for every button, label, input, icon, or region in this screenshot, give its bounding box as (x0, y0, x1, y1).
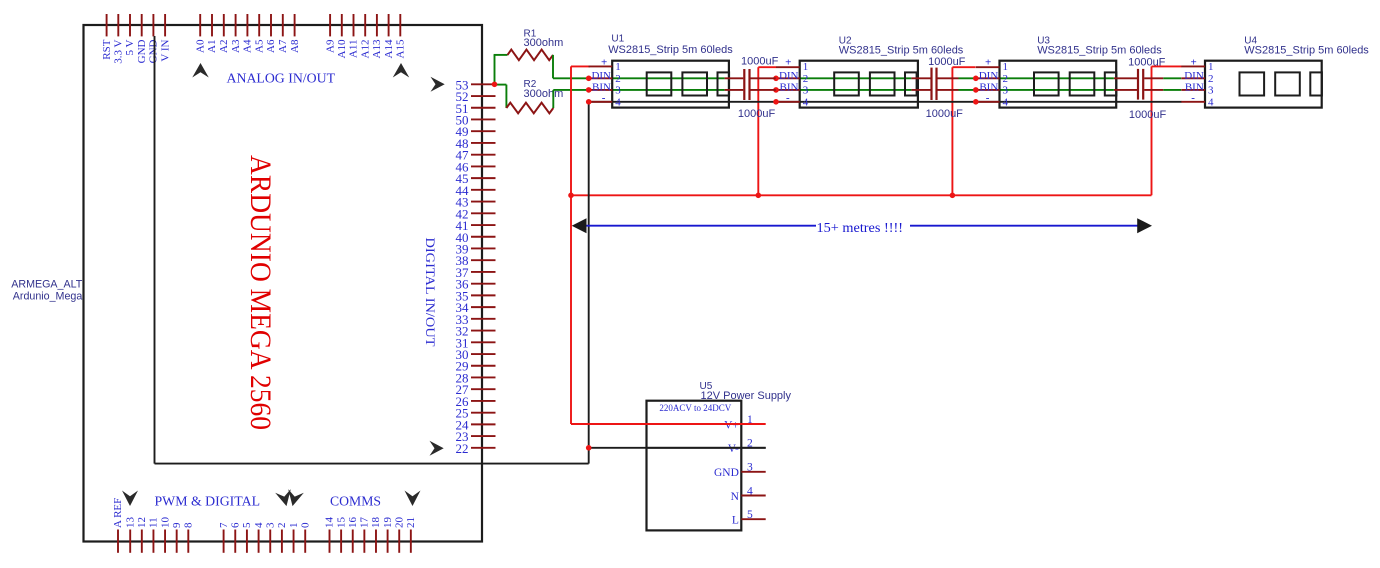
U1 pin 2 (DIN) (589, 77, 613, 79)
pin 50 (right) (471, 118, 496, 120)
junction pin 53 (492, 82, 498, 88)
svg-text:+: + (1190, 56, 1196, 68)
pin 10 (bottom) (164, 530, 166, 553)
svg-text:COMMS: COMMS (330, 494, 381, 509)
pin 1 (bottom) (293, 530, 295, 553)
svg-text:14: 14 (324, 517, 336, 529)
wire GND riser up to V- junction (588, 448, 590, 464)
LED strip U1 body (612, 61, 729, 108)
svg-text:12V Power Supply: 12V Power Supply (701, 390, 792, 402)
svg-text:A10: A10 (336, 39, 348, 58)
arrow down double (between PWM and COMMS) (275, 489, 294, 508)
svg-text:7: 7 (218, 522, 230, 528)
pin 25 (right) (471, 412, 496, 414)
pin A13 (top) (376, 14, 378, 36)
svg-text:2: 2 (1208, 73, 1214, 85)
svg-text:15+ metres !!!!: 15+ metres !!!! (817, 221, 904, 236)
pin 23 (right) (471, 435, 496, 437)
arrowhead right (1137, 218, 1152, 233)
arrow down left (below A REF) (122, 491, 138, 507)
svg-text:10: 10 (159, 517, 171, 529)
svg-text:8: 8 (183, 522, 195, 528)
svg-text:3: 3 (1003, 84, 1009, 96)
svg-text:4: 4 (253, 522, 265, 528)
svg-text:ARMEGA_ALT: ARMEGA_ALT (11, 279, 83, 291)
svg-text:WS2815_Strip 5m 60leds: WS2815_Strip 5m 60leds (1037, 45, 1162, 57)
pin 3.3 V (top) (117, 14, 119, 36)
capacitor C5/C6 leads row2 (1114, 77, 1137, 79)
pin 53 (right) (471, 83, 496, 85)
wire +12V red distribution (571, 194, 1152, 196)
svg-text:1000uF: 1000uF (1128, 56, 1166, 68)
wire green pin53 to R1 (494, 55, 496, 86)
pin A5 (top) (258, 14, 260, 36)
pin 40 (right) (471, 236, 496, 238)
svg-text:WS2815_Strip 5m 60leds: WS2815_Strip 5m 60leds (839, 45, 964, 57)
pin RST (top) (106, 14, 108, 36)
U5 pin 5 (L) (741, 518, 765, 520)
svg-text:DIN: DIN (779, 70, 799, 82)
junction GND at V- (586, 445, 592, 451)
pin 26 (right) (471, 400, 496, 402)
pin 24 (right) (471, 423, 496, 425)
svg-text:1: 1 (615, 61, 621, 73)
pin A12 (top) (364, 14, 366, 36)
capacitor pair C3/C4 plates (930, 68, 932, 100)
capacitor C3/C4 leads row3 (911, 89, 930, 91)
pin A3 (top) (235, 14, 237, 36)
svg-text:1000uF: 1000uF (928, 56, 966, 68)
svg-text:1000uF: 1000uF (738, 108, 776, 120)
svg-text:300ohm: 300ohm (524, 37, 564, 49)
pin A REF (bottom) (117, 530, 119, 553)
capacitor pair C1/C2 plates (743, 69, 745, 100)
junction +12V at U1 riser (568, 193, 574, 199)
svg-text:4: 4 (1003, 96, 1009, 108)
pin 48 (right) (471, 142, 496, 144)
wire green R2 to BIN row (552, 90, 554, 108)
pin A9 (top) (329, 14, 331, 36)
svg-text:A13: A13 (371, 39, 383, 58)
svg-text:22: 22 (456, 441, 469, 456)
svg-text:20: 20 (393, 517, 405, 529)
svg-text:A12: A12 (359, 40, 371, 59)
junctions at U2 pins (773, 76, 779, 82)
svg-text:0: 0 (299, 522, 311, 528)
svg-text:1: 1 (803, 61, 809, 73)
svg-text:+: + (985, 56, 991, 68)
pin 41 (right) (471, 224, 496, 226)
capacitor C3/C4 leads row2 (911, 77, 930, 79)
svg-text:A9: A9 (324, 39, 336, 53)
pin 32 (right) (471, 330, 496, 332)
pin 5 (bottom) (246, 530, 248, 553)
pin 27 (right) (471, 388, 496, 390)
svg-text:1: 1 (1208, 61, 1214, 73)
svg-text:A8: A8 (289, 39, 301, 53)
svg-text:+: + (601, 56, 607, 68)
svg-text:17: 17 (359, 517, 371, 529)
svg-text:ANALOG IN/OUT: ANALOG IN/OUT (227, 71, 336, 86)
svg-text:A1: A1 (206, 40, 218, 53)
pin 47 (right) (471, 154, 496, 156)
svg-text:A14: A14 (383, 39, 395, 58)
wire +12V red to V+ pin (571, 423, 766, 425)
pin A11 (top) (353, 14, 355, 36)
pin 11 (bottom) (152, 530, 154, 553)
svg-text:2: 2 (615, 73, 621, 85)
svg-text:GND: GND (714, 467, 739, 479)
U3 LED chip squares (1034, 72, 1059, 95)
svg-text:18: 18 (370, 517, 382, 529)
pin 35 (right) (471, 294, 496, 296)
capacitor C1/C2 leads row3 (725, 89, 744, 91)
pin 43 (right) (471, 201, 496, 203)
resistor R1 (508, 50, 554, 61)
capacitor C5/C6 leads row3 (1114, 89, 1137, 91)
svg-text:1000uF: 1000uF (926, 108, 964, 120)
pin 21 (bottom) (410, 530, 412, 553)
pin 42 (right) (471, 212, 496, 214)
wire GND black down from U1 pin4 (588, 102, 590, 448)
pin A15 (top) (399, 14, 401, 36)
U5 pin 3 (GND) (741, 471, 765, 473)
pin 33 (right) (471, 318, 496, 320)
wire +12V red to U4 pin 1 (1152, 65, 1182, 67)
svg-text:4: 4 (1208, 96, 1214, 108)
pin 19 (bottom) (387, 530, 389, 553)
svg-text:V+: V+ (724, 419, 739, 431)
LED strip U2 body (800, 61, 918, 108)
pin A4 (top) (246, 14, 248, 36)
svg-text:2: 2 (803, 73, 809, 85)
pin 12 (bottom) (141, 530, 143, 553)
svg-text:A4: A4 (242, 39, 254, 53)
pin A1 (top) (211, 14, 213, 36)
pin 28 (right) (471, 376, 496, 378)
svg-text:21: 21 (405, 517, 417, 528)
pin 38 (right) (471, 259, 496, 261)
pin A7 (top) (282, 14, 284, 36)
U2 pin 4 (-) (776, 101, 800, 103)
pin GND (top) (141, 14, 143, 36)
pin GND (top) (152, 14, 154, 36)
svg-text:15: 15 (335, 517, 347, 529)
junctions at U3 pins (973, 76, 979, 82)
U3 pin 2 (DIN) (976, 77, 1000, 79)
wire +12V red U2 riser (757, 67, 759, 195)
pin 17 (bottom) (363, 530, 365, 553)
svg-text:6: 6 (229, 522, 241, 528)
svg-text:A6: A6 (265, 39, 277, 53)
wire green pin53 to R2 (495, 84, 507, 86)
wire +12V red U1 riser (570, 66, 572, 424)
svg-text:L: L (732, 515, 739, 527)
pin 30 (right) (471, 353, 496, 355)
svg-text:GND: GND (136, 39, 148, 63)
svg-text:+: + (785, 56, 791, 68)
U4 LED chip squares (1240, 72, 1265, 95)
U1 pin 3 (BIN) (589, 89, 613, 91)
pin 52 (right) (471, 95, 496, 97)
svg-text:3: 3 (1208, 84, 1214, 96)
arrow right at pin 22 (430, 441, 444, 456)
U2 pin 2 (DIN) (776, 77, 800, 79)
U1 pin 4 (-) (589, 101, 613, 103)
svg-text:9: 9 (171, 522, 183, 528)
svg-text:WS2815_Strip 5m 60leds: WS2815_Strip 5m 60leds (608, 44, 733, 56)
svg-text:DIN: DIN (979, 70, 999, 82)
svg-text:V-: V- (728, 443, 739, 455)
pin 36 (right) (471, 283, 496, 285)
U1 pin 1 (+) (589, 65, 613, 67)
pin 3 (bottom) (269, 530, 271, 553)
pin A8 (top) (294, 14, 296, 36)
pin 29 (right) (471, 365, 496, 367)
power supply U5 body (647, 401, 742, 531)
capacitor pair C5/C6 plates (1137, 69, 1139, 100)
svg-text:A7: A7 (277, 39, 289, 53)
arrow right at pin 53 (431, 77, 445, 92)
pin 49 (right) (471, 130, 496, 132)
U4 pin 1 (+) (1181, 65, 1205, 67)
pin A14 (top) (388, 14, 390, 36)
pin 16 (bottom) (352, 530, 354, 553)
wire GND black over V- pin (647, 447, 766, 449)
pin 4 (bottom) (258, 530, 260, 553)
svg-text:12: 12 (136, 517, 148, 528)
pin 34 (right) (471, 306, 496, 308)
svg-text:3: 3 (747, 462, 753, 474)
pin 44 (right) (471, 189, 496, 191)
svg-text:1000uF: 1000uF (741, 56, 779, 68)
pin V IN (top) (164, 14, 166, 36)
svg-text:11: 11 (148, 517, 160, 528)
wire green R1 to DIN row (552, 55, 554, 78)
svg-text:3.3 V: 3.3 V (113, 39, 125, 63)
svg-text:DIGITAL IN/OUT: DIGITAL IN/OUT (423, 238, 438, 347)
pin 37 (right) (471, 271, 496, 273)
arrowhead left (572, 218, 587, 233)
svg-text:PWM & DIGITAL: PWM & DIGITAL (155, 494, 261, 509)
svg-text:4: 4 (803, 96, 809, 108)
U5 pin 4 (N) (741, 495, 765, 497)
svg-text:1: 1 (288, 523, 300, 529)
pin 8 (bottom) (187, 530, 189, 553)
junction +12V at U3 riser (950, 193, 956, 199)
pin 18 (bottom) (375, 530, 377, 553)
pin 45 (right) (471, 177, 496, 179)
U2 pin 1 (+) (776, 66, 800, 68)
svg-text:-: - (786, 92, 790, 104)
capacitor C1/C2 leads row2 (725, 77, 744, 79)
wire +12V red U3 riser (951, 67, 953, 195)
pin 9 (bottom) (176, 530, 178, 553)
pin A6 (top) (270, 14, 272, 36)
U2 pin 3 (BIN) (776, 89, 800, 91)
svg-text:220ACV to 24DCV: 220ACV to 24DCV (659, 403, 731, 413)
svg-text:RST: RST (101, 39, 113, 59)
pin 22 (right) (471, 447, 496, 449)
svg-text:13: 13 (124, 517, 136, 529)
svg-text:DIN: DIN (591, 70, 611, 82)
pin A10 (top) (341, 14, 343, 36)
junctions at U1 pins (586, 76, 592, 82)
pin 7 (bottom) (223, 530, 225, 553)
pin 6 (bottom) (234, 530, 236, 553)
arrow up left of ANALOG IN/OUT (192, 63, 209, 78)
svg-text:4: 4 (615, 96, 621, 108)
svg-text:-: - (602, 92, 606, 104)
svg-text:A3: A3 (230, 39, 242, 53)
svg-text:5 V: 5 V (124, 39, 136, 55)
svg-text:2: 2 (1003, 73, 1009, 85)
arrow up right of ANALOG IN/OUT (393, 63, 410, 78)
svg-text:N: N (731, 491, 740, 503)
pin 39 (right) (471, 247, 496, 249)
svg-text:A0: A0 (194, 39, 206, 53)
pin 15 (bottom) (340, 530, 342, 553)
svg-text:1000uF: 1000uF (1129, 109, 1167, 121)
LED strip U4 body (1205, 61, 1322, 108)
U4 pin 2 (DIN) (1181, 77, 1205, 79)
resistor R2 (506, 103, 553, 114)
svg-text:3: 3 (803, 84, 809, 96)
svg-text:V IN: V IN (159, 39, 171, 61)
svg-text:-: - (1191, 92, 1195, 104)
pin 20 (bottom) (398, 530, 400, 553)
svg-text:WS2815_Strip 5m 60leds: WS2815_Strip 5m 60leds (1244, 45, 1369, 57)
pin 31 (right) (471, 341, 496, 343)
svg-text:A5: A5 (253, 39, 265, 53)
svg-text:3: 3 (264, 522, 276, 528)
wire GND black row pin4 (589, 101, 1182, 103)
svg-text:2: 2 (276, 523, 288, 529)
svg-text:ARDUNIO MEGA 2560: ARDUNIO MEGA 2560 (244, 155, 277, 430)
wire GND horizontal to power supply riser (155, 463, 589, 465)
wire green data row (612, 89, 724, 91)
wire GND from Arduino GND pin down through body (154, 36, 156, 464)
wire blue 15m dimension line left segment (574, 225, 816, 227)
U4 pin 3 (BIN) (1181, 89, 1205, 91)
wire blue 15m dimension line right segment (910, 225, 1149, 227)
svg-text:A15: A15 (395, 39, 407, 58)
pin 14 (bottom) (329, 530, 331, 553)
pin 13 (bottom) (129, 530, 131, 553)
U3 pin 4 (-) (976, 101, 1000, 103)
svg-text:A REF: A REF (112, 498, 124, 528)
U2 LED chip squares (834, 72, 859, 95)
svg-text:Ardunio_Mega: Ardunio_Mega (13, 291, 83, 303)
arrow down right (after COMMS) (405, 491, 421, 507)
Arduino Mega 2560 symbol body (84, 25, 483, 542)
pin 46 (right) (471, 165, 496, 167)
svg-text:19: 19 (382, 517, 394, 529)
svg-text:A2: A2 (218, 40, 230, 53)
junction +12V at U2 riser (756, 193, 762, 199)
svg-text:DIN: DIN (1184, 70, 1204, 82)
svg-text:-: - (986, 92, 990, 104)
pin 51 (right) (471, 107, 496, 109)
U4 pin 4 (-) (1181, 101, 1205, 103)
pin A0 (top) (199, 14, 201, 36)
svg-text:5: 5 (747, 509, 753, 521)
pin A2 (top) (223, 14, 225, 36)
pin 0 (bottom) (304, 530, 306, 553)
svg-text:4: 4 (747, 485, 753, 497)
pin 5 V (top) (129, 14, 131, 36)
svg-text:5: 5 (241, 522, 253, 528)
LED strip U3 body (1000, 61, 1117, 108)
U3 pin 1 (+) (976, 66, 1000, 68)
svg-text:3: 3 (615, 84, 621, 96)
wire GND black to PSU V- (589, 447, 766, 449)
svg-text:A11: A11 (348, 40, 360, 59)
svg-text:1: 1 (1003, 61, 1009, 73)
U1 LED chip squares (647, 72, 672, 95)
wire green data row (612, 77, 724, 79)
svg-text:16: 16 (347, 517, 359, 529)
U3 pin 3 (BIN) (976, 89, 1000, 91)
pin 2 (bottom) (281, 530, 283, 553)
